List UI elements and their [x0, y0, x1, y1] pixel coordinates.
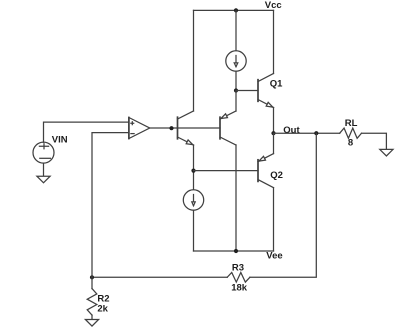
wire R3 to feedback divider node: [92, 276, 227, 278]
wire driver NPN emitter to lower bias node: [193, 145, 195, 190]
svg-text:Q1: Q1: [270, 79, 283, 90]
wire divider node to R2: [91, 277, 93, 288]
svg-text:Out: Out: [283, 125, 300, 136]
current source I2: [183, 190, 203, 210]
node feedback junction dot: [314, 131, 318, 135]
svg-text:RL: RL: [345, 118, 358, 129]
ground at RL: [380, 149, 393, 156]
wire Q2 base: [194, 170, 259, 172]
wire Out node to load RL: [274, 132, 340, 134]
wire Q1 collector to Vcc rail: [273, 10, 275, 73]
wire RL to ground: [362, 133, 387, 149]
svg-text:Vcc: Vcc: [265, 0, 282, 11]
svg-text:Vee: Vee: [266, 251, 282, 262]
wire Vcc top rail: [194, 9, 274, 11]
current source I1: [226, 51, 246, 71]
wire feedback divider node to op-amp inverting input: [92, 133, 129, 278]
wire VIN plus to op-amp non-inverting input: [44, 122, 129, 142]
wire driver PNP emitter to Q1 base node: [235, 91, 237, 112]
node Q1 base junction dot: [234, 88, 238, 92]
resistor RL: [340, 128, 362, 138]
node Vee junction dot: [234, 249, 238, 253]
wire Out node to Q2 emitter: [273, 133, 275, 153]
ground below R2: [85, 320, 98, 327]
wire Vee bottom rail: [194, 250, 274, 252]
transistor driver NPN: [178, 111, 194, 145]
node lower bias junction dot: [191, 169, 195, 173]
svg-text:2k: 2k: [97, 304, 108, 315]
transistor Q2 (PNP): [258, 154, 274, 188]
wire current source I2 to Vee rail: [193, 210, 195, 251]
svg-text:R3: R3: [232, 262, 244, 273]
voltage source VIN: [33, 142, 54, 163]
wire op-amp output to driver bases: [150, 127, 220, 129]
svg-text:18k: 18k: [231, 283, 248, 294]
svg-text:VIN: VIN: [52, 134, 68, 145]
wire driver PNP collector to Vee rail: [235, 145, 237, 251]
transistor driver PNP: [220, 111, 236, 145]
wire R2 to ground: [91, 315, 93, 319]
node feedback divider junction dot: [90, 275, 94, 279]
wire Q1 emitter to Out node: [273, 108, 275, 134]
svg-text:Q2: Q2: [270, 170, 283, 181]
node driver base junction dot: [169, 126, 173, 130]
resistor R3: [227, 273, 250, 283]
wire current source I1 to Q1 base node: [235, 71, 237, 90]
wire Vcc rail to current source I1: [235, 10, 237, 51]
wire feedback from Out down to R3: [250, 133, 316, 277]
op-amp U1: [129, 118, 150, 139]
wire driver NPN collector to Vcc rail: [193, 10, 195, 111]
wire Q2 collector to Vee rail: [273, 188, 275, 251]
wire VIN minus to ground: [43, 163, 45, 176]
wire Q1 base: [236, 90, 258, 92]
transistor Q1 (NPN): [258, 74, 274, 108]
node Vcc junction dot: [234, 8, 238, 12]
node Out junction dot: [271, 131, 275, 135]
svg-text:8: 8: [348, 138, 353, 149]
resistor R2: [87, 289, 97, 316]
ground below VIN: [37, 176, 50, 183]
